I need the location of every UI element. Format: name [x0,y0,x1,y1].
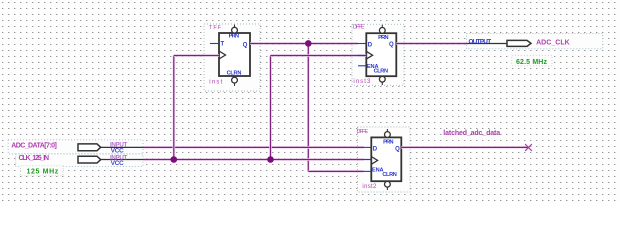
pin stub clk DFFE inst2 [364,159,372,161]
wire clk branch vertical to TFF [173,56,176,160]
flip-flop U2 DFFE inst3 [352,24,404,85]
svg-text:PRN: PRN [378,35,388,41]
wire clk branch vertical to DFFE inst3 [269,56,272,160]
input pin ADC_DATA[7:0] [8,140,143,155]
wire ADC_DATA bus horizontal [143,146,364,149]
wire clk branch horizontal into DFFE inst3 clock [271,54,367,57]
svg-text:62.5 MHz: 62.5 MHz [516,59,548,66]
svg-text:CLK_125_IN: CLK_125_IN [19,155,50,162]
wire TFF.Q to DFFE.D net [250,42,358,45]
wire DFFE inst3 Q to OUTPUT pin [396,42,467,45]
value label 125 MHz [21,166,64,176]
svg-text:ADC_DATA[7:0]: ADC_DATA[7:0] [11,142,57,149]
svg-text:TFF: TFF [209,25,222,31]
input pin CLK_125_IN [16,154,143,167]
svg-text:DFFE: DFFE [353,25,365,31]
svg-text:latched_adc_data: latched_adc_data [443,130,500,137]
svg-text:CLRN: CLRN [227,71,242,77]
svg-text:PRN: PRN [229,34,239,40]
junction node B on CLK net [171,156,178,163]
svg-text:D: D [368,43,373,49]
svg-text:125 MHz: 125 MHz [27,168,59,175]
svg-text:D: D [373,147,378,153]
dangling end marker X [525,144,532,151]
svg-text:Q: Q [389,42,394,48]
svg-text:PRN: PRN [383,139,393,145]
flip-flop U1 TFF inst [204,24,260,91]
junction node A [305,40,312,47]
wire horizontal into DFFE inst2 ENA [308,170,363,173]
output pin ADC_CLK [467,33,603,48]
wire clk branch horizontal into TFF clock [174,54,219,57]
svg-text:DFFE: DFFE [357,129,369,135]
junction node C on CLK net [267,156,274,163]
svg-text:inst2: inst2 [362,184,377,190]
svg-text:Q: Q [395,147,400,153]
wire vertical from node A down to ENA [307,44,310,172]
svg-text:inst: inst [209,79,222,85]
wire DFFE inst2 Q latched_adc_data [401,146,528,149]
wire CLK net horizontal [143,158,364,161]
flip-flop U3 DFFE inst2 [357,127,411,192]
pin stub clk DFFE inst3 [358,55,367,57]
svg-text:VCC: VCC [111,160,124,167]
value label 62.5 MHz [512,55,552,66]
svg-text:ADC_CLK: ADC_CLK [536,40,570,47]
svg-text:OUTPUT: OUTPUT [469,38,492,45]
svg-text:inst3: inst3 [353,79,371,85]
svg-text:CLRN: CLRN [374,68,388,74]
svg-text:CLRN: CLRN [382,172,396,178]
svg-text:T: T [221,42,225,48]
svg-text:Q: Q [243,42,248,48]
